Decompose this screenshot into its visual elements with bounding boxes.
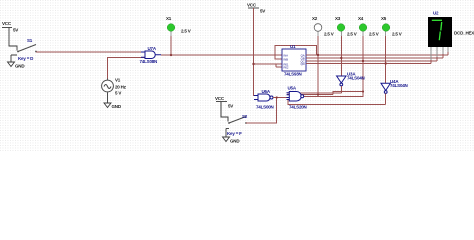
ground (below S2) <box>223 129 230 142</box>
wire R01/R02 branch <box>254 64 283 67</box>
ground (below S1) <box>8 55 15 67</box>
svg-text:5V: 5V <box>228 104 233 109</box>
inverter U4A 74LS04N <box>381 83 390 93</box>
wire VCC down to R01/R02 net and U6A input <box>254 8 259 96</box>
svg-text:DCD_HEX: DCD_HEX <box>454 31 474 36</box>
probe X3 (green, 2.5 V) <box>340 36 342 76</box>
wire QC bus line <box>306 60 437 62</box>
clock source V1 (20 Hz 5 V) <box>102 78 114 104</box>
node junction X3/QB <box>340 57 342 59</box>
svg-text:5V: 5V <box>13 28 18 33</box>
wire V1 to U7A input B <box>108 57 146 78</box>
probe X4 (green, 2.5 V) <box>362 36 364 92</box>
svg-text:VCC: VCC <box>2 21 12 26</box>
svg-text:X3: X3 <box>335 16 341 21</box>
node junction X2/QA <box>317 54 319 56</box>
counter U1 74LS93N <box>282 49 306 71</box>
node junction R0 <box>252 63 254 65</box>
svg-text:2.5 V: 2.5 V <box>369 32 379 37</box>
svg-text:V1: V1 <box>115 78 121 83</box>
svg-text:X5: X5 <box>381 16 387 21</box>
svg-text:X4: X4 <box>358 16 364 21</box>
svg-text:GND: GND <box>230 139 240 144</box>
svg-text:QD: QD <box>301 62 305 66</box>
svg-text:U5A: U5A <box>288 85 297 90</box>
NAND gate U5A 74LS20N (4-input) <box>287 92 304 102</box>
svg-text:74LS08N: 74LS08N <box>140 59 158 64</box>
svg-text:2.5 V: 2.5 V <box>181 29 191 34</box>
svg-text:2.5 V: 2.5 V <box>392 32 402 37</box>
probe X2 (off, 2.5 V) <box>317 36 319 95</box>
svg-text:74LS04N: 74LS04N <box>347 75 365 80</box>
wire feedback loop QA to INB <box>275 46 317 59</box>
node junction X2 stem to input line <box>317 94 319 96</box>
svg-text:S2: S2 <box>242 114 248 119</box>
svg-text:5 V: 5 V <box>115 91 121 96</box>
svg-text:74LS04N: 74LS04N <box>390 83 408 88</box>
svg-text:S1: S1 <box>27 38 33 43</box>
svg-text:74LS93N: 74LS93N <box>284 72 302 77</box>
probe X5 (green, 2.5 V) <box>385 36 387 83</box>
svg-text:Key = D: Key = D <box>18 56 34 61</box>
wire U6A output to U5A input <box>273 97 289 99</box>
svg-text:74LS20N: 74LS20N <box>289 104 307 109</box>
probe X1 (green, 2.5 V) <box>170 36 172 55</box>
NAND gate U6A 74LS00N <box>254 94 273 101</box>
svg-text:U1: U1 <box>290 44 296 49</box>
svg-text:2.5 V: 2.5 V <box>347 32 357 37</box>
node junction X4/QC <box>362 60 364 62</box>
inverter U3A 74LS04N <box>337 76 346 86</box>
switch S1 (Key = D) <box>18 45 36 52</box>
node junction X1 stem <box>170 54 172 56</box>
svg-text:U2: U2 <box>433 11 439 16</box>
power VCC (above S2) <box>216 101 227 103</box>
wire S1 to U7A input A <box>36 51 145 53</box>
wire U5A output <box>304 92 363 97</box>
wire GND to switch <box>11 54 17 56</box>
ground (below V1) <box>104 103 111 108</box>
svg-text:VCC: VCC <box>215 96 225 101</box>
svg-text:X2: X2 <box>312 16 318 21</box>
power VCC (top-center) <box>248 7 259 9</box>
wire S2 to U6A/U5A net <box>246 98 277 124</box>
wire U7A output to U1 INA (clock line) <box>161 54 282 56</box>
wire U3A output to U5A input <box>287 86 341 93</box>
power VCC (top-left, 5V) <box>2 28 17 51</box>
svg-text:U6A: U6A <box>262 89 271 94</box>
switch S2 (Key = F) <box>229 117 246 124</box>
wire QC branch to U5A input <box>287 92 363 95</box>
svg-text:Key = F: Key = F <box>227 131 242 136</box>
svg-text:74LS00N: 74LS00N <box>256 104 274 109</box>
wire QA bus line <box>306 54 448 56</box>
svg-text:GND: GND <box>112 104 122 109</box>
svg-text:INB: INB <box>284 58 289 62</box>
svg-text:VCC: VCC <box>247 3 257 8</box>
svg-text:R02: R02 <box>284 66 289 70</box>
node junction X5/QD <box>385 62 387 64</box>
display pins <box>431 47 448 60</box>
wire U4A output to U5A input <box>288 93 386 104</box>
wire QD bus line <box>306 63 431 65</box>
svg-text:2.5 V: 2.5 V <box>324 32 334 37</box>
wire QB bus line <box>306 57 443 59</box>
node junction U5A output / QC elbow <box>362 90 364 92</box>
AND gate U7A 74LS08N <box>141 51 161 59</box>
wire VCC to S2 <box>221 102 228 122</box>
svg-text:GND: GND <box>15 64 25 69</box>
display U2 DCD_HEX showing 7 <box>428 17 452 47</box>
pin labels U1 <box>284 54 305 70</box>
svg-text:X1: X1 <box>166 16 172 21</box>
svg-text:20 Hz: 20 Hz <box>115 85 127 90</box>
svg-text:U7A: U7A <box>148 46 157 51</box>
svg-text:5V: 5V <box>260 8 265 13</box>
